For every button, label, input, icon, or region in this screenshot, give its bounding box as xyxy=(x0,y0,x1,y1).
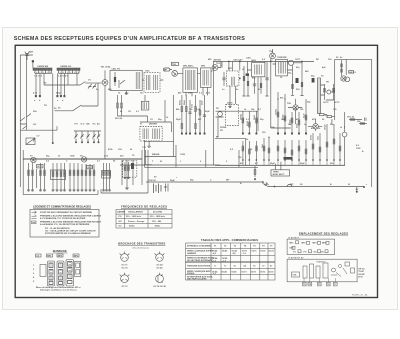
svg-text:OC72: OC72 xyxy=(260,271,266,273)
svg-text:G.O: G.O xyxy=(81,124,85,126)
drop wire xyxy=(356,187,358,192)
capacitor C14 xyxy=(357,118,366,121)
wire xyxy=(118,95,148,122)
switch S2 xyxy=(263,182,269,187)
svg-text:T.HP: T.HP xyxy=(356,148,361,150)
svg-text:100µF: 100µF xyxy=(325,124,327,130)
svg-text:OSCILLATEUR: OSCILLATEUR xyxy=(128,211,143,214)
svg-text:10kΩ: 10kΩ xyxy=(254,115,256,120)
svg-text:TABLEAU DES APPL. COMMERCIALIS: TABLEAU DES APPL. COMMERCIALISES xyxy=(201,238,258,242)
svg-text:OC72: OC72 xyxy=(268,271,274,273)
resistor RU7 xyxy=(298,112,300,134)
capacitor C15 xyxy=(222,72,225,86)
svg-text:25µF: 25µF xyxy=(202,100,204,105)
ground symbols detector xyxy=(228,93,303,107)
ground xyxy=(125,185,129,189)
resistor R4 xyxy=(114,77,116,82)
transistor T3 xyxy=(31,157,36,162)
volume pot row xyxy=(345,112,357,128)
transformer footprint 3 xyxy=(316,266,320,278)
svg-text:bobinages oscillateur, vus de: bobinages oscillateur, vus de dessus xyxy=(40,288,78,291)
resistor R14 xyxy=(292,65,294,93)
svg-text:GAMMES: GAMMES xyxy=(187,252,197,255)
svg-text:B 9V: B 9V xyxy=(358,277,363,279)
resistor R3 xyxy=(60,95,62,97)
svg-text:COM: COM xyxy=(180,154,185,156)
resistor RU8 xyxy=(305,104,307,134)
resistor RL14 xyxy=(333,124,335,160)
resistor RU6 xyxy=(291,112,293,134)
svg-text:574kc: 574kc xyxy=(129,224,136,227)
svg-text:ALIM. SECT.: ALIM. SECT. xyxy=(273,173,286,176)
svg-text:PO: PO xyxy=(304,251,307,253)
svg-text:M: M xyxy=(160,161,162,163)
electrolytic C22 (horizontal) xyxy=(284,157,293,160)
svg-text:VOL: VOL xyxy=(118,149,123,151)
left rail xyxy=(20,55,26,187)
svg-text:PO : CL AV EN SERVICE: PO : CL AV EN SERVICE xyxy=(45,227,70,230)
svg-text:SCHEMA DES RECEPTEURS EQUIPES: SCHEMA DES RECEPTEURS EQUIPES D’UN AMPLI… xyxy=(14,36,245,42)
volume pot xyxy=(292,272,300,277)
electrolytic C9 xyxy=(296,78,299,83)
resistor RL13 xyxy=(326,124,328,160)
resistor R2 xyxy=(56,95,58,97)
wire xyxy=(55,110,73,112)
loudspeaker HP (circle pair) xyxy=(341,76,346,81)
wire xyxy=(104,70,106,95)
svg-text:T5 AC: T5 AC xyxy=(358,270,364,273)
resistor RL6 xyxy=(277,140,279,160)
svg-text:510 – 1605 kc/s: 510 – 1605 kc/s xyxy=(126,216,142,218)
resistor R11 xyxy=(247,76,249,94)
wire TS1 collector xyxy=(142,62,221,81)
resistor RL11 xyxy=(312,133,314,160)
svg-text:1 2 3 4 5 6: 1 2 3 4 5 6 xyxy=(58,75,69,78)
resistor R33 xyxy=(333,84,335,100)
node A xyxy=(32,60,34,62)
wire xyxy=(44,84,80,86)
label chip MF3 xyxy=(73,254,79,257)
emitter line xyxy=(105,62,214,166)
svg-text:4,7kΩ: 4,7kΩ xyxy=(282,114,285,120)
label chip MF1 xyxy=(47,254,53,257)
capacitor C8 xyxy=(265,62,269,94)
node row xyxy=(75,141,77,143)
svg-text:OC71: OC71 xyxy=(295,59,301,61)
resistor network 2 (boxed) xyxy=(51,170,66,180)
capacitor C6 xyxy=(203,95,206,134)
svg-text:CAG 4,5V: CAG 4,5V xyxy=(233,58,243,61)
ground xyxy=(125,91,128,95)
wire mesh below coils xyxy=(35,72,79,74)
resistor R31 xyxy=(340,69,342,73)
svg-text:50µF: 50µF xyxy=(170,180,176,182)
resistor RL15 xyxy=(339,133,341,160)
svg-text:50µF: 50µF xyxy=(300,163,306,165)
svg-text:TR: TR xyxy=(326,82,329,84)
platine FI box xyxy=(287,239,335,254)
svg-text:ACCORD: ACCORD xyxy=(153,211,163,214)
resistor RL2 xyxy=(248,141,250,160)
resistor R27 xyxy=(350,118,355,120)
label box xyxy=(349,71,354,74)
detector dashed box xyxy=(226,71,239,86)
wire xyxy=(120,141,220,165)
svg-text:JACK: JACK xyxy=(227,101,233,104)
earphone jack xyxy=(218,112,223,117)
svg-text:R 1478 - OL - BL: R 1478 - OL - BL xyxy=(352,294,368,296)
board right edge xyxy=(141,150,143,185)
transformer footprint 2 xyxy=(310,264,314,278)
wire xyxy=(258,111,291,131)
trimmer bank CV2-CV6 xyxy=(74,130,101,132)
svg-text:OC 45: OC 45 xyxy=(156,266,163,269)
resistor RU1 xyxy=(242,112,244,134)
svg-text:BLINDAGE: BLINDAGE xyxy=(53,249,67,253)
svg-text:APPAREILS CONCERNES: APPAREILS CONCERNES xyxy=(187,244,212,247)
svg-text:25µF: 25µF xyxy=(176,119,182,121)
resistor R9b xyxy=(199,100,201,134)
oscillator dashed box xyxy=(144,73,160,93)
svg-text:DRIVER: DRIVER xyxy=(149,124,157,126)
svg-text:25µF: 25µF xyxy=(205,111,211,113)
transistor pinout OC74 (D case) xyxy=(156,275,164,283)
elco xyxy=(332,268,336,272)
svg-text:25µF: 25µF xyxy=(270,163,276,165)
svg-text:2,2kΩ: 2,2kΩ xyxy=(290,119,292,125)
resistor network 5 (boxed) xyxy=(102,171,111,179)
transistor TS4 xyxy=(270,53,276,59)
svg-text:RC: RC xyxy=(316,59,320,61)
platine BF box xyxy=(287,259,357,282)
resistor R6 xyxy=(121,95,123,116)
svg-text:HP 2,5: HP 2,5 xyxy=(350,72,357,74)
transformer footprint 1 xyxy=(303,266,307,278)
svg-text:PRISE: PRISE xyxy=(220,127,227,129)
wire xyxy=(321,85,335,100)
switch S1a xyxy=(80,82,86,86)
svg-text:A CV BRANCHE. P.O. POSITION DU: A CV BRANCHE. P.O. POSITION DU BOITIER xyxy=(40,217,86,220)
board outline AF left xyxy=(23,150,148,194)
resistor RU2 xyxy=(248,112,250,134)
svg-text:PO: PO xyxy=(44,105,47,107)
node xyxy=(363,186,365,188)
shield can 3 xyxy=(57,261,64,286)
board bottoms xyxy=(145,140,259,167)
resistor R32 xyxy=(324,84,326,100)
shield can 2 xyxy=(48,261,55,286)
transistor TS2 xyxy=(172,71,178,77)
phase splitter circle xyxy=(327,90,331,94)
resistor R10 xyxy=(243,66,245,94)
svg-text:T.DRIVER: T.DRIVER xyxy=(277,57,287,59)
resistor network 4 xyxy=(81,164,83,188)
svg-text:BROCHAGE DES TRANSISTORS: BROCHAGE DES TRANSISTORS xyxy=(118,242,165,246)
bus xyxy=(20,126,57,130)
svg-text:EMPLACEMENT DES REGLAGES: EMPLACEMENT DES REGLAGES xyxy=(299,231,348,235)
bottom components row xyxy=(320,114,325,116)
bus xyxy=(23,158,142,160)
left bottom subcircuit xyxy=(122,160,133,185)
component value labels xyxy=(29,50,368,191)
svg-text:220p: 220p xyxy=(56,93,61,95)
svg-text:OSC.: OSC. xyxy=(145,71,151,73)
svg-text:MF2 455kc: MF2 455kc xyxy=(183,65,194,68)
transistor TS7 xyxy=(293,105,298,110)
wire xyxy=(140,122,172,132)
svg-text:OC 74 OC 80: OC 74 OC 80 xyxy=(153,285,166,288)
svg-text:OC 75: OC 75 xyxy=(121,267,128,269)
resistor R15 xyxy=(301,62,303,94)
wire MF2 bottom drops xyxy=(186,87,208,96)
transistor TS1 xyxy=(102,80,108,86)
wire xyxy=(86,82,102,84)
transistor pinout OC71 xyxy=(121,254,129,262)
wire drops from rail xyxy=(222,59,271,74)
electrolytic C20 xyxy=(312,78,315,83)
svg-text:OC72: OC72 xyxy=(269,250,275,252)
svg-text:CADRE GO: CADRE GO xyxy=(60,65,72,68)
resistor R35 xyxy=(260,77,262,94)
svg-text:DET: DET xyxy=(228,68,233,70)
svg-text:PU: PU xyxy=(220,130,223,132)
supply rail right xyxy=(310,59,372,187)
svg-text:1kΩ: 1kΩ xyxy=(262,144,264,148)
transistor TS8 xyxy=(313,124,318,129)
resistor R30 xyxy=(341,60,343,76)
converter block box xyxy=(110,70,142,90)
resistor R7 xyxy=(181,95,183,134)
svg-text:OC71: OC71 xyxy=(251,250,257,252)
svg-text:100kΩ: 100kΩ xyxy=(241,114,243,120)
svg-text:150 – 280: 150 – 280 xyxy=(152,221,162,223)
trimmer CV1 xyxy=(88,84,96,89)
resistor RU3 xyxy=(255,112,257,134)
svg-text:OC45: OC45 xyxy=(231,270,237,273)
svg-text:1kΩ: 1kΩ xyxy=(318,136,320,140)
capacitor C16 xyxy=(253,77,256,94)
resistor RL9 xyxy=(298,140,300,160)
svg-text:OC72: OC72 xyxy=(260,250,266,252)
board outline xyxy=(215,139,246,166)
IF transformer MF4 xyxy=(252,63,265,77)
legend symbols xyxy=(32,211,37,224)
resistor RL7 xyxy=(284,140,286,160)
svg-text:M: M xyxy=(348,184,350,186)
svg-text:PRISES: PRISES xyxy=(187,273,195,275)
svg-text:OC71: OC71 xyxy=(241,271,247,273)
svg-text:OC: OC xyxy=(93,124,97,126)
svg-text:FREQUENCES DE REGLAGES: FREQUENCES DE REGLAGES xyxy=(121,205,167,209)
svg-text:25µF: 25µF xyxy=(304,113,306,118)
wire driver xyxy=(273,49,303,70)
resistor R9 xyxy=(195,95,197,134)
transistor T4 xyxy=(81,157,86,162)
shield can 4 xyxy=(66,260,74,287)
svg-text:S2 INT: S2 INT xyxy=(358,274,365,276)
svg-text:AC: AC xyxy=(97,123,101,126)
svg-text:47kΩ: 47kΩ xyxy=(246,121,249,126)
svg-text:OC45: OC45 xyxy=(222,270,228,273)
svg-text:France – Europe: France – Europe xyxy=(128,220,145,223)
svg-text:GO: GO xyxy=(119,221,123,223)
svg-text:TS1 OC44: TS1 OC44 xyxy=(101,66,112,69)
resistor R1 xyxy=(35,95,37,97)
wire xyxy=(288,108,322,127)
svg-text:AM 455: AM 455 xyxy=(214,58,222,61)
coil in box xyxy=(231,77,234,85)
svg-text:A LA MASSE. P.O. OU RECEPTION: A LA MASSE. P.O. OU RECEPTION EXTERIEURE xyxy=(40,223,90,226)
svg-text:OC71: OC71 xyxy=(37,166,43,168)
resistor RL8 xyxy=(291,140,293,160)
svg-text:CAD. PO: CAD. PO xyxy=(112,67,121,70)
ground xyxy=(147,141,151,147)
svg-text:OU SECTEUR ALTERNATIF: OU SECTEUR ALTERNATIF xyxy=(187,259,214,262)
resistor network 1 xyxy=(28,163,30,188)
switch S1d xyxy=(20,114,31,130)
resistor network 6 (dashed box) xyxy=(123,161,137,177)
svg-text:PU: PU xyxy=(216,108,219,110)
wire xyxy=(344,126,346,165)
svg-text:GO: GO xyxy=(33,124,37,126)
shield can 1 xyxy=(40,264,46,276)
svg-text:PILE 9V: PILE 9V xyxy=(148,180,156,182)
svg-text:510 – 1605 kc/s: 510 – 1605 kc/s xyxy=(150,216,166,218)
wire xyxy=(218,111,258,137)
resistor R28 xyxy=(359,123,367,125)
resistor RL1 xyxy=(242,141,244,160)
tuning capacitor CV xyxy=(26,138,35,145)
svg-text:10kΩ: 10kΩ xyxy=(332,119,334,124)
ferrite rod coil L1 (CADRE AM) xyxy=(33,68,52,70)
neutralizing coil block xyxy=(141,101,149,110)
transistor TS5a xyxy=(288,60,293,65)
switch S1c xyxy=(119,80,125,88)
svg-text:1 2 3 4 5: 1 2 3 4 5 xyxy=(34,75,43,78)
capacitor C1 xyxy=(39,95,41,97)
resistor R5 xyxy=(117,95,119,116)
bus xyxy=(215,164,345,166)
label box T4 xyxy=(87,165,93,168)
svg-text:OC45: OC45 xyxy=(222,249,228,252)
resistor RL12 xyxy=(319,133,321,160)
resistor network 3 xyxy=(69,163,71,188)
svg-text:GO: GO xyxy=(314,251,318,253)
node row xyxy=(181,133,183,135)
IF transformer MF2 xyxy=(183,68,198,92)
terminal marks under coils xyxy=(35,72,51,73)
svg-text:P.O: P.O xyxy=(75,124,79,126)
label chip MF2 xyxy=(57,254,63,257)
svg-text:MASSE: MASSE xyxy=(152,153,160,156)
capacitor C12 xyxy=(164,184,168,192)
supply rail xyxy=(213,61,310,63)
mid verticals top extensions xyxy=(278,92,316,131)
resistor RL3 xyxy=(255,141,257,160)
transistor pinout OC72 xyxy=(121,275,129,283)
svg-text:HP 2,5: HP 2,5 xyxy=(358,268,365,270)
svg-text:OSC: OSC xyxy=(290,248,295,250)
node dots xyxy=(270,61,272,63)
svg-text:160kc: 160kc xyxy=(155,225,162,227)
electrolytic C7 xyxy=(246,73,249,76)
wire detector row xyxy=(230,59,271,129)
IF transformer MF3 xyxy=(201,68,212,88)
main schematic frame xyxy=(15,45,377,297)
coil Lb xyxy=(154,75,157,90)
svg-text:OC72: OC72 xyxy=(323,102,329,104)
svg-text:INT.: INT. xyxy=(290,184,294,186)
resistor RL4 xyxy=(263,138,265,160)
capacitor C2 xyxy=(63,95,65,97)
resistor RU5 xyxy=(284,98,286,134)
wire xyxy=(20,55,33,68)
svg-text:R5 2,2k: R5 2,2k xyxy=(115,118,123,120)
switch S1b xyxy=(73,105,82,111)
wire xyxy=(53,73,98,143)
oval label xyxy=(163,68,170,71)
label box T3 xyxy=(37,165,44,168)
transformer T1 xyxy=(140,127,162,141)
transformer footprint 4 xyxy=(323,263,328,278)
svg-text:VERS: VERS xyxy=(273,171,279,173)
vertical component labels xyxy=(180,100,334,148)
svg-text:150kΩ: 150kΩ xyxy=(276,109,278,115)
shield can 5 xyxy=(75,261,81,276)
svg-text:GAMME: GAMME xyxy=(117,211,126,214)
transistor TS3 xyxy=(212,65,218,71)
wire to right xyxy=(268,185,364,187)
svg-text:VOL 5k: VOL 5k xyxy=(347,117,355,119)
junction box xyxy=(271,170,290,176)
svg-text:OC: OC xyxy=(119,225,123,227)
battery B1 (PILE 9V) xyxy=(146,181,263,183)
ferrite rod coil L2 (CADRE GO) xyxy=(57,68,80,70)
svg-text:MAS PARTICULIERS: MAS PARTICULIERS xyxy=(187,278,207,281)
svg-text:POINT DE RACCORDEMENT DU CIRCU: POINT DE RACCORDEMENT DU CIRCUIT IMPRIME xyxy=(40,211,92,214)
resistor RL5 xyxy=(268,138,270,160)
label chip CV xyxy=(36,254,42,257)
svg-text:OC 44: OC 44 xyxy=(156,264,163,267)
svg-text:PO: PO xyxy=(119,216,122,218)
antenna xyxy=(25,52,29,61)
output transformer T5 (tall hatched) xyxy=(318,78,321,114)
svg-text:CADRE AM: CADRE AM xyxy=(37,65,48,68)
thermistor xyxy=(342,132,347,137)
svg-text:OC 72: OC 72 xyxy=(121,286,128,288)
resistor R8 xyxy=(185,95,187,134)
svg-text:CAG: CAG xyxy=(246,57,251,60)
svg-text:GO : OSCILLATEUR DU CIRCUIT CO: GO : OSCILLATEUR DU CIRCUIT COURT-CIRCUI… xyxy=(45,229,96,232)
driver transformer T2 xyxy=(276,59,288,76)
svg-text:OC71: OC71 xyxy=(251,271,257,273)
svg-text:470Ω: 470Ω xyxy=(310,135,313,140)
svg-text:82kΩ: 82kΩ xyxy=(180,100,182,105)
transistor pinout OC44 xyxy=(156,254,164,262)
jack dashed box xyxy=(226,105,239,126)
svg-text:(Vus de dessous): (Vus de dessous) xyxy=(133,248,149,250)
osc coil windings xyxy=(136,72,140,89)
svg-text:POTENTIOMETRE DE VOLUME AU MIN: POTENTIOMETRE DE VOLUME AU MINIMUM xyxy=(45,232,91,235)
resistor RU4 xyxy=(277,98,279,134)
svg-text:ANT: ANT xyxy=(29,51,34,54)
svg-text:TENSIONS ELECTRODE: TENSIONS ELECTRODE xyxy=(187,265,211,267)
coil tap pins xyxy=(35,70,79,73)
coupling cap cluster xyxy=(131,163,134,169)
svg-text:OC72: OC72 xyxy=(334,102,340,104)
connector squares below box xyxy=(303,282,307,286)
label box TS2 xyxy=(172,62,179,65)
